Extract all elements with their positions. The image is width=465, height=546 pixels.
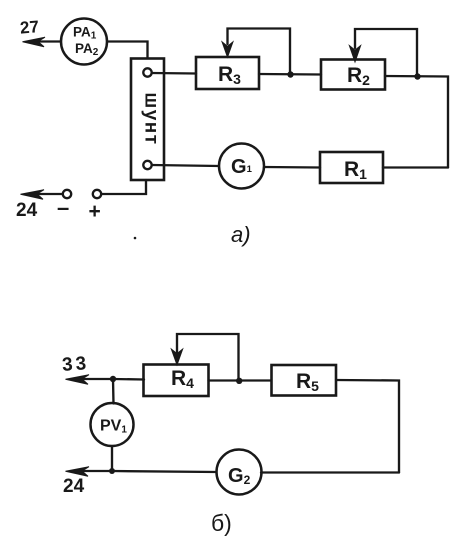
resistor R1 — [320, 152, 383, 183]
wire PA to shunt top — [107, 42, 148, 59]
arrow to terminal 24 (top circuit) — [21, 190, 63, 200]
svg-text:24: 24 — [16, 200, 38, 221]
svg-text:R5: R5 — [296, 370, 319, 394]
svg-text:27: 27 — [19, 17, 40, 38]
wire R3 to R2 — [259, 73, 321, 76]
node junction right of R2 — [414, 73, 420, 79]
svg-text:PA2: PA2 — [75, 41, 99, 58]
svg-text:PA1: PA1 — [73, 25, 97, 42]
arrow to terminal 33 — [66, 375, 114, 385]
wire R5 right down to bottom rail — [336, 380, 399, 473]
resistor R2 — [321, 60, 385, 90]
arrow to terminal 27 — [23, 37, 62, 47]
wire right rail to R1 — [383, 166, 448, 168]
resistor R4 — [144, 365, 209, 397]
shunt pin terminal bottom — [143, 161, 151, 169]
svg-text:+: + — [89, 200, 101, 223]
wire PV1 bottom to junction — [111, 446, 113, 471]
svg-text:б): б) — [211, 510, 232, 536]
ammeter PA1 PA2 — [61, 19, 107, 65]
svg-text:R4: R4 — [171, 367, 194, 391]
svg-text:R1: R1 — [344, 158, 367, 182]
wiper arrow R4 — [172, 334, 239, 380]
wiper arrow R2 — [350, 29, 417, 76]
node junction right of R3 — [287, 71, 293, 77]
terminal plus — [93, 190, 101, 198]
resistor R5 — [272, 365, 337, 396]
arrow to terminal 24 (bottom circuit) — [66, 467, 113, 477]
wire bottom rail to G2 — [261, 471, 399, 473]
wire R1 to G1 — [264, 166, 320, 169]
svg-text:33: 33 — [61, 353, 90, 376]
terminal minus — [63, 190, 71, 198]
wire G2 to PV junction — [112, 471, 217, 472]
shunt (шунт) box — [131, 59, 164, 181]
generator G2 — [217, 450, 262, 495]
svg-text:R3: R3 — [218, 63, 241, 87]
svg-text:а): а) — [231, 222, 251, 247]
generator G1 — [219, 144, 264, 189]
svg-text:24: 24 — [63, 476, 85, 497]
svg-text:G2: G2 — [228, 465, 251, 487]
wire shunt bottom to plus terminal — [102, 180, 147, 194]
wire shunt top terminal to R3 — [152, 72, 196, 75]
svg-text:G1: G1 — [231, 156, 253, 178]
wire to R4 — [113, 378, 144, 381]
node junction below PV1 — [109, 468, 115, 474]
svg-text:–: – — [57, 195, 69, 220]
wiper arrow R3 — [223, 29, 291, 74]
svg-text:PV1: PV1 — [100, 418, 127, 436]
voltmeter PV1 — [91, 403, 134, 446]
wire R2 right to right rail — [385, 76, 448, 168]
wire G1 to shunt bottom terminal — [152, 165, 219, 166]
node junction right of R4 — [236, 378, 242, 384]
dot speck — [134, 237, 137, 240]
wire R4 to R5 — [209, 379, 272, 381]
svg-text:шунт: шунт — [141, 92, 162, 145]
node junction above PV1 — [110, 376, 116, 382]
svg-text:R2: R2 — [347, 64, 370, 88]
wire junction to PV1 top — [112, 379, 115, 404]
resistor R3 — [196, 57, 259, 89]
shunt pin terminal top — [143, 68, 151, 76]
